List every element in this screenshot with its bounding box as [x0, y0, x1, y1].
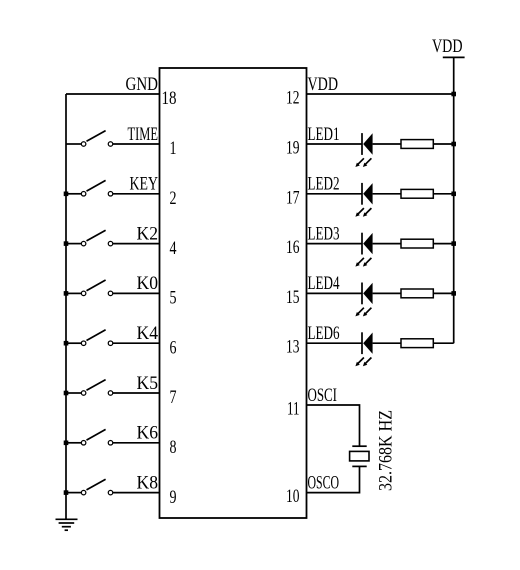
- switch S5 throw contact: [108, 341, 113, 346]
- wire: [307, 243, 362, 245]
- LED D4 emission arrows: [355, 308, 371, 317]
- wire: [307, 93, 454, 95]
- wire: [66, 143, 81, 145]
- junction: [64, 241, 69, 246]
- ground: [56, 519, 78, 530]
- switch S8 pole contact: [81, 490, 86, 495]
- wire: [66, 292, 81, 294]
- switch S2 lever: [87, 180, 106, 191]
- LED D1 emission arrows: [355, 158, 371, 167]
- svg-text:TIME: TIME: [128, 125, 159, 145]
- svg-text:18: 18: [162, 88, 177, 109]
- svg-text:32.768K HZ: 32.768K HZ: [377, 410, 397, 491]
- LED D5 cathode bar: [361, 332, 363, 354]
- switch S6 throw contact: [108, 391, 113, 396]
- wire: [453, 57, 455, 94]
- svg-text:16: 16: [286, 237, 300, 258]
- wire: [113, 492, 160, 494]
- wire: [113, 243, 160, 245]
- switch S7 pole contact: [81, 441, 86, 446]
- crystal Y1 body: [350, 451, 369, 461]
- LED D5 triangle: [363, 333, 372, 354]
- svg-text:VDD: VDD: [308, 75, 339, 95]
- wire: [307, 143, 362, 145]
- wire: [433, 143, 453, 145]
- switch S5 lever: [87, 330, 106, 341]
- junction: [64, 490, 69, 495]
- switch S3 pole contact: [81, 241, 86, 246]
- wire: [66, 492, 81, 494]
- wire: [307, 193, 362, 195]
- wire: [113, 342, 160, 344]
- svg-text:6: 6: [170, 337, 177, 358]
- wire: [373, 193, 401, 195]
- svg-text:4: 4: [170, 238, 177, 259]
- svg-text:LED2: LED2: [308, 175, 340, 195]
- svg-text:GND: GND: [126, 75, 159, 95]
- switch S4 lever: [87, 280, 106, 291]
- svg-text:12: 12: [286, 88, 300, 109]
- svg-text:9: 9: [170, 487, 177, 508]
- resistor R4: [401, 289, 433, 298]
- wire: [113, 193, 160, 195]
- wire: [66, 342, 81, 344]
- junction: [451, 241, 456, 246]
- wire: [113, 143, 160, 145]
- wire: [307, 405, 360, 446]
- svg-text:LED1: LED1: [308, 125, 340, 145]
- svg-text:K0: K0: [137, 274, 159, 294]
- junction: [64, 341, 69, 346]
- switch S2 pole contact: [81, 192, 86, 197]
- wire: [307, 466, 360, 492]
- switch S8 throw contact: [108, 490, 113, 495]
- svg-text:K8: K8: [137, 473, 159, 493]
- switch S7 throw contact: [108, 441, 113, 446]
- resistor R5: [401, 339, 433, 348]
- IC U1: [160, 68, 307, 518]
- svg-text:OSCO: OSCO: [308, 473, 340, 493]
- junction: [64, 391, 69, 396]
- wire: [373, 292, 401, 294]
- svg-text:1: 1: [170, 138, 177, 159]
- wire: [433, 292, 453, 294]
- svg-text:K5: K5: [137, 374, 159, 394]
- wire: [307, 342, 362, 344]
- LED D3 emission arrows: [355, 258, 371, 267]
- switch S3 lever: [87, 230, 106, 241]
- switch S2 throw contact: [108, 192, 113, 197]
- svg-text:LED3: LED3: [308, 224, 340, 244]
- svg-text:15: 15: [286, 287, 300, 308]
- svg-text:KEY: KEY: [130, 175, 159, 195]
- LED D5 emission arrows: [355, 358, 371, 367]
- switch S1 lever: [87, 131, 106, 142]
- wire: [65, 94, 67, 519]
- wire: [433, 243, 453, 245]
- wire: [113, 442, 160, 444]
- svg-text:LED4: LED4: [308, 274, 340, 294]
- wire: [373, 243, 401, 245]
- crystal Y1 top plate: [352, 445, 366, 447]
- wire: [66, 392, 81, 394]
- resistor R2: [401, 189, 433, 198]
- wire: [66, 193, 81, 195]
- switch S1 throw contact: [108, 142, 113, 147]
- resistor R3: [401, 239, 433, 248]
- switch S8 lever: [87, 479, 106, 490]
- LED D1 cathode bar: [361, 133, 363, 155]
- switch S1 pole contact: [81, 142, 86, 147]
- svg-text:VDD: VDD: [432, 37, 463, 57]
- junction: [451, 142, 456, 147]
- LED D4 cathode bar: [361, 283, 363, 305]
- wire: [66, 93, 160, 95]
- svg-text:10: 10: [286, 486, 300, 507]
- svg-text:8: 8: [170, 437, 177, 458]
- switch S7 lever: [87, 429, 106, 440]
- wire: [113, 392, 160, 394]
- LED D3 cathode bar: [361, 233, 363, 255]
- resistor R1: [401, 140, 433, 149]
- LED D2 triangle: [363, 183, 372, 204]
- wire: [66, 442, 81, 444]
- svg-text:19: 19: [286, 138, 300, 159]
- crystal Y1 bottom plate: [352, 465, 366, 467]
- switch S6 lever: [87, 380, 106, 391]
- switch S4 pole contact: [81, 291, 86, 296]
- switch S3 throw contact: [108, 241, 113, 246]
- svg-text:K4: K4: [137, 324, 159, 344]
- svg-text:5: 5: [170, 288, 177, 309]
- svg-text:OSCI: OSCI: [308, 386, 338, 406]
- switch S4 throw contact: [108, 291, 113, 296]
- wire: [433, 342, 453, 344]
- svg-text:17: 17: [286, 187, 300, 208]
- wire: [66, 243, 81, 245]
- svg-text:K6: K6: [137, 424, 159, 444]
- svg-text:11: 11: [287, 399, 300, 420]
- wire: [113, 292, 160, 294]
- junction: [64, 441, 69, 446]
- junction: [451, 192, 456, 197]
- svg-text:13: 13: [286, 337, 300, 358]
- junction: [64, 291, 69, 296]
- svg-text:7: 7: [170, 387, 177, 408]
- svg-text:LED6: LED6: [308, 324, 340, 344]
- junction: [64, 192, 69, 197]
- svg-text:K2: K2: [137, 224, 159, 244]
- wire: [453, 94, 455, 343]
- junction: [451, 291, 456, 296]
- switch S6 pole contact: [81, 391, 86, 396]
- LED D3 triangle: [363, 233, 372, 254]
- svg-text:2: 2: [170, 188, 177, 209]
- LED D1 triangle: [363, 133, 372, 154]
- wire: [373, 342, 401, 344]
- switch S5 pole contact: [81, 341, 86, 346]
- wire: [307, 292, 362, 294]
- wire: [433, 193, 453, 195]
- LED D4 triangle: [363, 283, 372, 304]
- LED D2 emission arrows: [355, 208, 371, 217]
- LED D2 cathode bar: [361, 183, 363, 205]
- junction: [451, 92, 456, 97]
- power VDD bar: [443, 56, 465, 58]
- wire: [373, 143, 401, 145]
